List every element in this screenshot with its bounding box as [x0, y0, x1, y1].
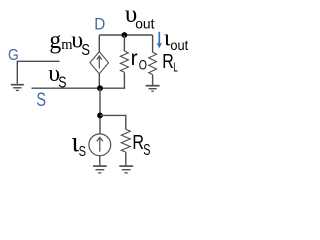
- label vs (gate-source voltage): [48, 61, 66, 91]
- svg-text:S: S: [36, 90, 46, 111]
- svg-text:out: out: [135, 16, 154, 32]
- svg-text:S: S: [143, 142, 150, 159]
- label RL: [162, 51, 178, 75]
- resistor ro: [120, 35, 128, 88]
- wire diamond bottom stub: [98, 74, 100, 88]
- wire lower rail to RS: [100, 115, 126, 129]
- dependent current source U1 (diamond): [90, 52, 109, 74]
- node dot drain junction: [122, 32, 128, 38]
- ground current source: [93, 166, 107, 173]
- svg-text:S: S: [81, 42, 90, 59]
- wire source node down: [99, 88, 101, 134]
- resistor RL: [149, 52, 157, 85]
- ground RL: [146, 86, 160, 92]
- wire RL branch down: [152, 35, 154, 52]
- wire circle bottom to ground: [99, 156, 101, 166]
- svg-text:g: g: [49, 27, 61, 54]
- ground RS: [119, 166, 133, 173]
- svg-text:S: S: [79, 143, 86, 160]
- wire diamond top stub: [98, 35, 100, 52]
- wire drain rail: [99, 34, 152, 36]
- node dot source junction: [97, 85, 103, 91]
- svg-text:out: out: [170, 37, 188, 53]
- svg-text:O: O: [139, 56, 147, 72]
- wire gate stub (ground up and right): [17, 61, 59, 84]
- svg-text:D: D: [94, 14, 105, 33]
- label vout: [125, 1, 155, 32]
- label is: [71, 126, 86, 160]
- wire source rail: [32, 87, 126, 89]
- resistor RS: [121, 129, 130, 165]
- ground gate: [11, 85, 24, 91]
- label ro: [131, 47, 147, 73]
- current source arrow (up): [97, 137, 103, 151]
- svg-text:L: L: [173, 60, 178, 75]
- label RS: [132, 132, 150, 159]
- current arrow iout (blue): [157, 32, 162, 49]
- current source I1 (circle): [89, 134, 111, 156]
- node dot lower junction: [97, 113, 103, 119]
- label gm*vs (dependent source value): [49, 27, 90, 59]
- label iout: [164, 26, 188, 53]
- dependent source arrow (up): [97, 56, 102, 69]
- svg-text:R: R: [162, 51, 174, 73]
- svg-text:r: r: [131, 47, 138, 70]
